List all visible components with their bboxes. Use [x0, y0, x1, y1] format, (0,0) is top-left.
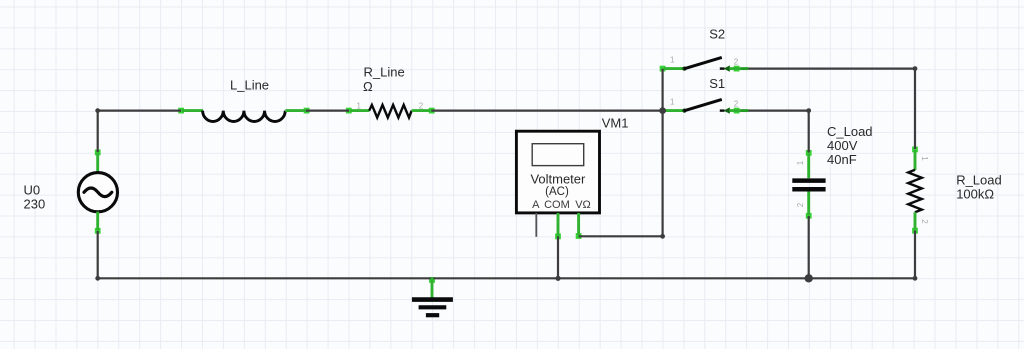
VM1 display [532, 144, 584, 166]
junction COM at bus [555, 276, 560, 281]
svg-text:(AC): (AC) [545, 186, 569, 198]
wire voltmeter COM down [557, 236, 559, 278]
wire S1 to C_Load top [740, 109, 809, 111]
svg-text:L_Line: L_Line [230, 77, 269, 92]
pin 2 of S1 [729, 109, 740, 112]
wire bottom bus [98, 277, 915, 279]
svg-text:1: 1 [670, 97, 675, 106]
pad of S2 pin 2 [734, 66, 740, 72]
svg-text:1: 1 [670, 55, 675, 64]
L_Line coil [203, 111, 286, 122]
wire top-left horizontal [97, 109, 181, 111]
ground [412, 277, 453, 315]
pad of C_Load pin 1 [806, 150, 812, 156]
pin 2 of R_Load [914, 212, 917, 229]
svg-text:2: 2 [920, 219, 929, 224]
C_Load plates [792, 178, 825, 183]
junction C_Load bottom [805, 274, 813, 282]
pin 1 of L_Line [182, 109, 203, 112]
wire C_Load branch vertical bottom [808, 216, 810, 278]
inductor L_Line [182, 111, 306, 122]
pin 1 of R_Line [350, 109, 370, 112]
VM1 terminal V pin [577, 213, 580, 235]
svg-text:VM1: VM1 [602, 116, 629, 131]
R_Line zigzag [369, 105, 412, 118]
svg-text:2: 2 [734, 58, 739, 67]
pad of U0 pin 1 [95, 150, 101, 156]
svg-text:S1: S1 [709, 76, 725, 91]
svg-text:VΩ: VΩ [575, 199, 591, 211]
pad of ground pin [429, 277, 435, 283]
S1 right contact [720, 109, 725, 111]
svg-text:2: 2 [796, 202, 805, 207]
pin 1 of R_Load [914, 150, 917, 170]
pin 1 of S2 [664, 67, 684, 70]
wire switch-branch vertical [661, 69, 663, 237]
pin 2 of U0 [96, 212, 99, 231]
svg-text:C_Load: C_Load [827, 124, 873, 139]
capacitor C_Load [792, 154, 825, 215]
pad of S1 pin 2 [734, 108, 740, 114]
switch S2 [664, 55, 748, 72]
VM1 body [516, 131, 599, 213]
resistor R_Line [350, 101, 431, 117]
node corner R_Load top [913, 66, 918, 71]
svg-text:1: 1 [357, 101, 362, 110]
wire S2 to R_Load top [740, 67, 915, 69]
pin 1 of C_Load [807, 154, 810, 179]
pad of R_Load pin 2 [912, 228, 918, 234]
wire between L_Line and R_Line [306, 109, 349, 111]
svg-text:R_Line: R_Line [364, 65, 405, 80]
node top-left corner [95, 108, 100, 113]
svg-text:2: 2 [734, 100, 739, 109]
svg-text:COM: COM [544, 199, 570, 211]
svg-text:S2: S2 [709, 26, 725, 41]
ground bars [412, 297, 453, 302]
pin 2 of L_Line [285, 109, 305, 112]
svg-text:U0: U0 [24, 183, 41, 198]
pin 2 of C_Load [807, 192, 810, 215]
node corner R_Load bottom [913, 276, 918, 281]
wire C_Load branch vertical top [808, 111, 810, 153]
svg-text:230: 230 [24, 197, 46, 212]
pin 1 of U0 [96, 153, 99, 173]
svg-text:2: 2 [419, 101, 424, 110]
pad of R_Load pin 1 [912, 147, 918, 153]
svg-text:R_Load: R_Load [956, 172, 1002, 187]
voltage source U0 [78, 153, 117, 230]
resistor R_Load [908, 150, 929, 229]
svg-text:100kΩ: 100kΩ [956, 187, 994, 202]
svg-text:Voltmeter: Voltmeter [530, 172, 586, 187]
wire R_Load branch vertical top [914, 69, 916, 149]
wire left vertical lower [97, 231, 99, 278]
node corner at voltmeter wire [660, 234, 665, 239]
pad of VM1 COM pin [555, 234, 561, 240]
pin 1 of S1 [664, 109, 684, 112]
svg-text:A: A [532, 199, 540, 211]
node corner C_Load top [806, 108, 811, 113]
VM1 terminal COM pin [557, 213, 560, 236]
svg-text:1: 1 [796, 160, 805, 165]
voltmeter VM1 [516, 131, 599, 237]
svg-text:1: 1 [920, 156, 929, 161]
svg-text:Ω: Ω [363, 79, 373, 94]
pad of U0 pin 2 [95, 228, 101, 234]
S2 blade [684, 57, 722, 68]
VM1 terminal A stub [535, 213, 537, 237]
pad of L_Line pin 2 [304, 108, 310, 114]
pin 2 of R_Line [412, 109, 431, 112]
svg-text:400V: 400V [827, 138, 858, 153]
ground pin [431, 277, 434, 299]
wire R_Load branch vertical bottom [914, 231, 916, 279]
pad of R_Line pin 2 [429, 108, 435, 114]
pad of C_Load pin 2 [806, 213, 812, 219]
wire voltmeter V-terminal horizontal [579, 235, 663, 237]
switch S1 [664, 97, 748, 114]
wire left vertical upper [97, 111, 99, 153]
S2 right contact [720, 67, 725, 69]
pin 2 of S2 [729, 67, 740, 70]
wire R_Line to junction [431, 109, 662, 111]
pad of R_Line pin 1 [346, 108, 352, 114]
node bottom-left corner [95, 276, 100, 281]
pad of L_Line pin 1 [178, 108, 184, 114]
S1 blade [684, 99, 722, 110]
U0 body [78, 173, 117, 212]
svg-text:40nF: 40nF [827, 152, 857, 167]
R_Load zigzag [908, 170, 922, 213]
junction switches node [659, 107, 666, 114]
pad of VM1 V pin [576, 233, 582, 239]
pad of S2 pin 1 [660, 66, 666, 72]
